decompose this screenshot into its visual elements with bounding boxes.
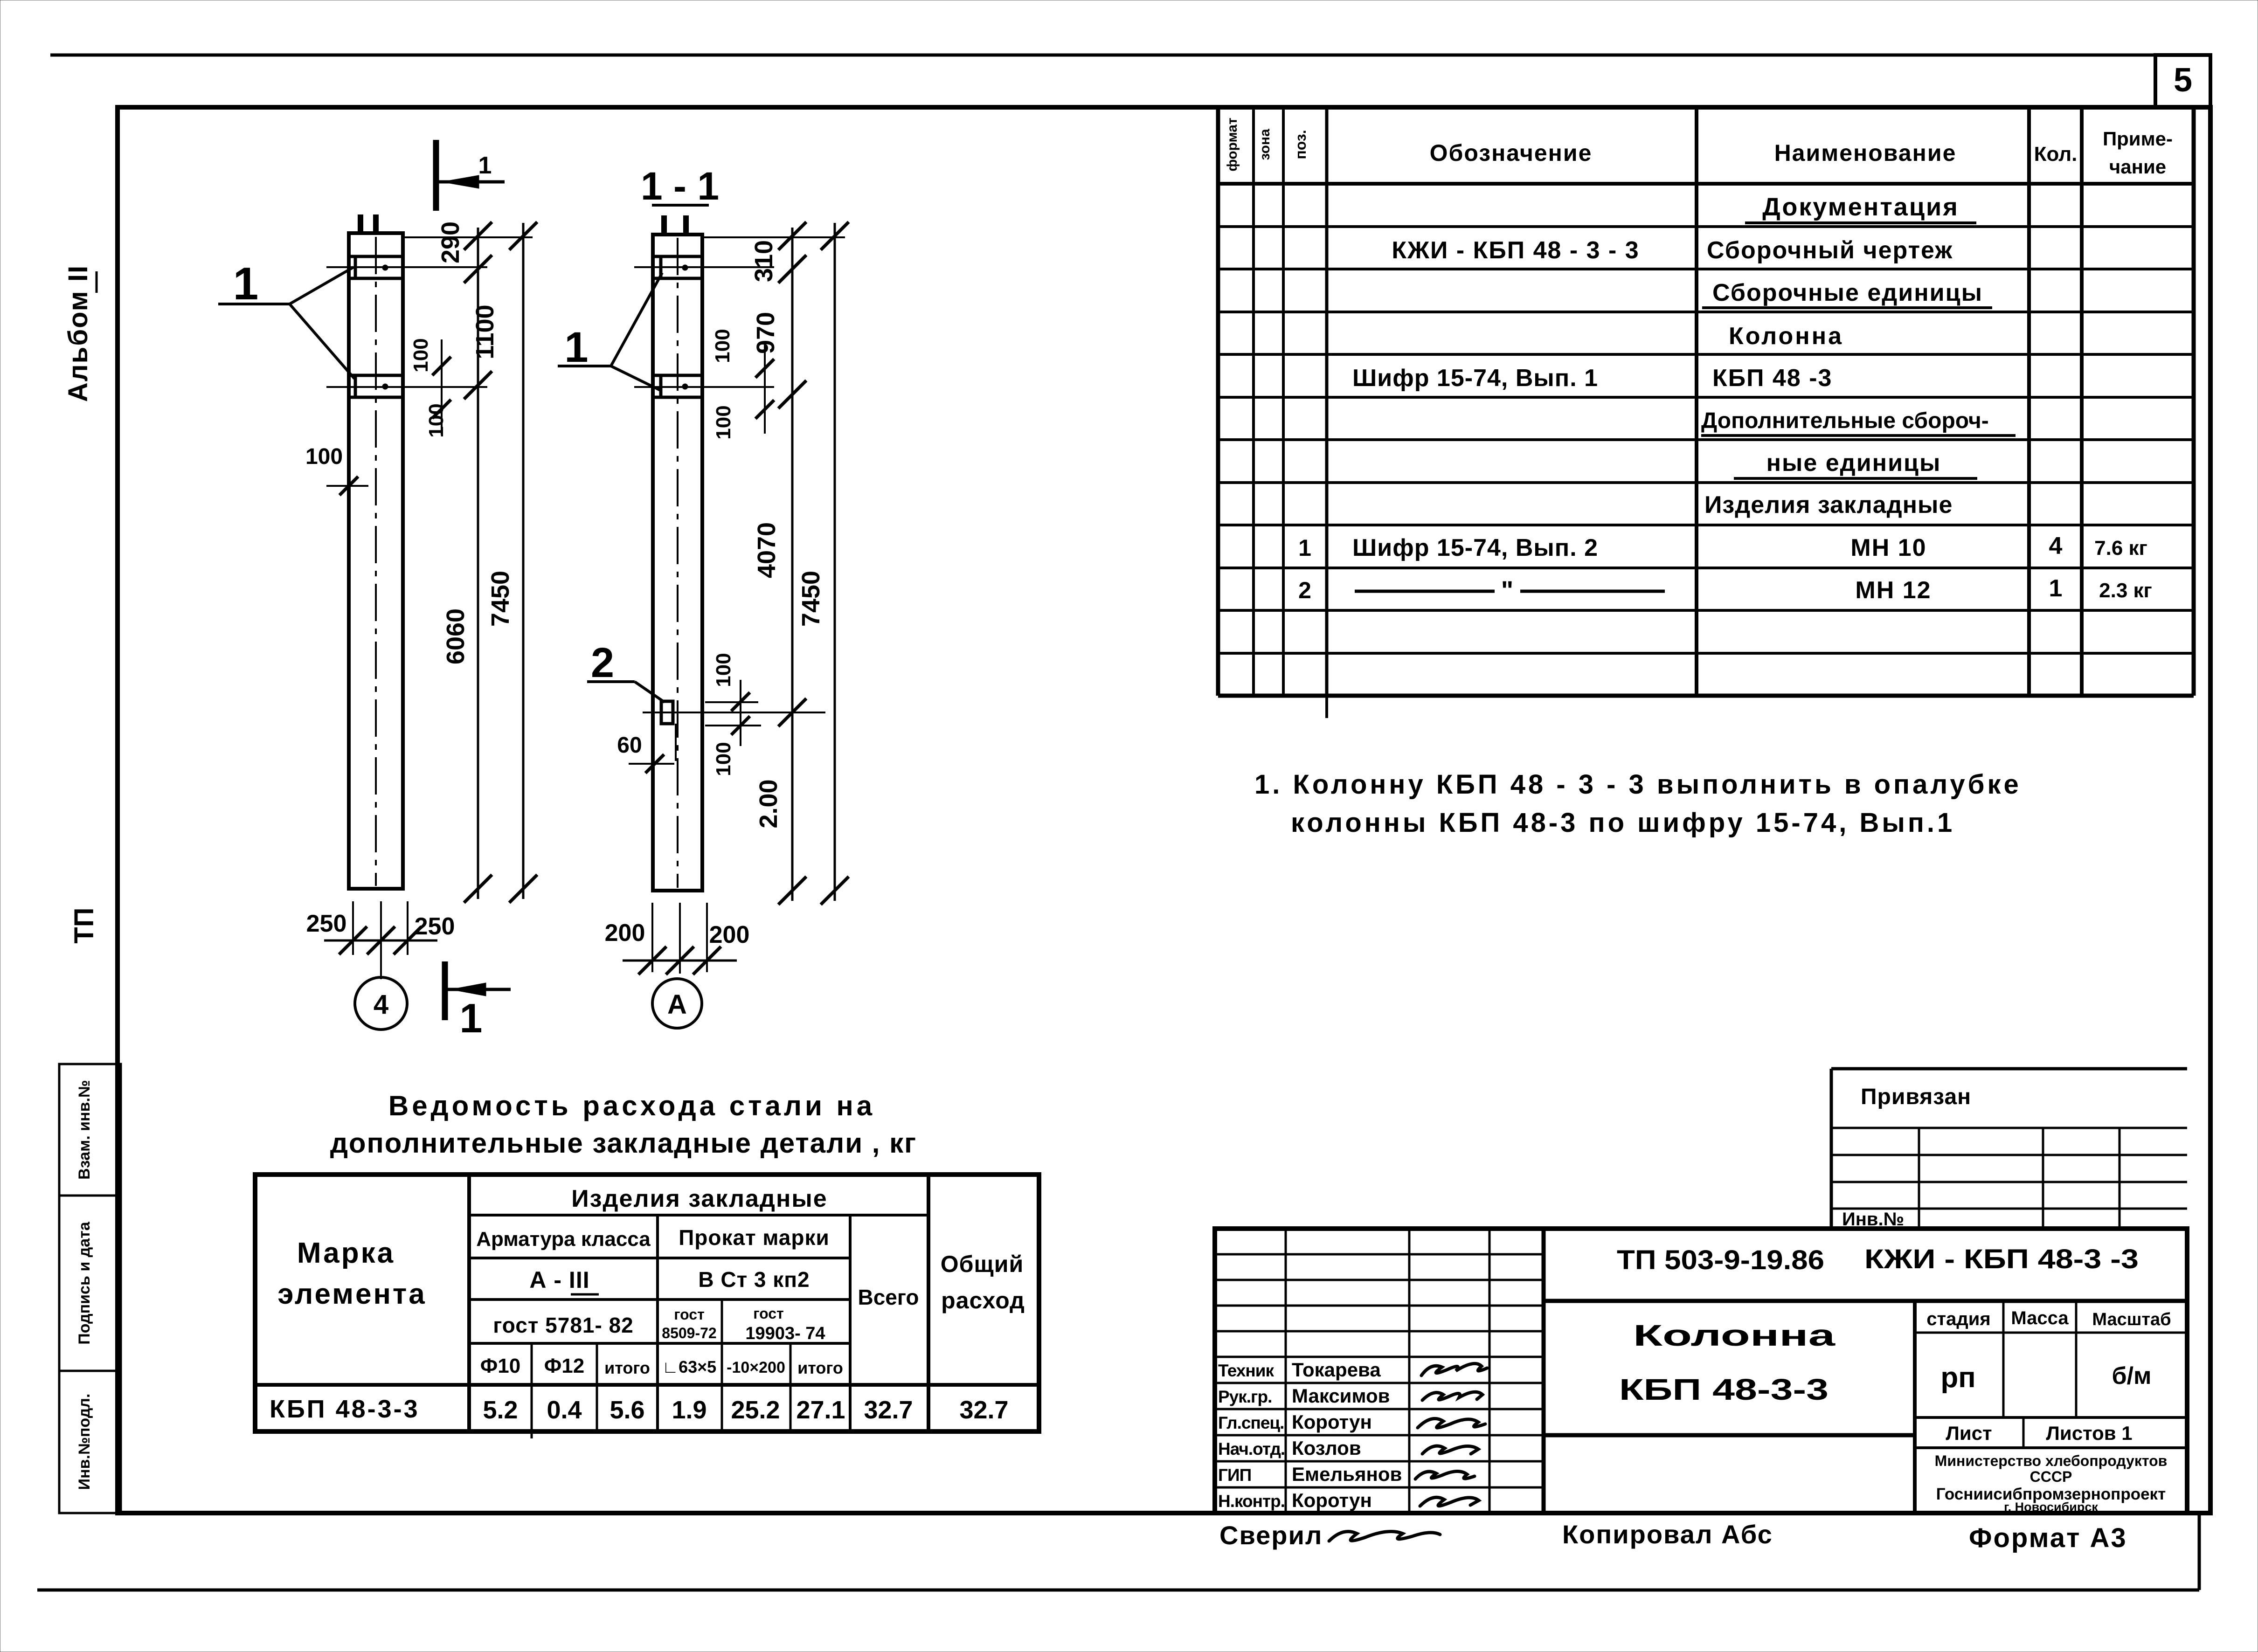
svg-text:Колонна: Колонна <box>1633 1319 1835 1352</box>
svg-text:дополнительные закладные де: дополнительные закладные детали , кг <box>330 1127 917 1159</box>
signatures (cursive squiggles) <box>1421 1363 1487 1376</box>
svg-text:8509-72: 8509-72 <box>662 1325 716 1341</box>
svg-text:100: 100 <box>712 653 735 687</box>
svg-text:Прокат марки: Прокат марки <box>679 1225 830 1250</box>
svg-text:1. Колонну КБП 48 - 3 - 3: 1. Колонну КБП 48 - 3 - 3 выполнить в оп… <box>1254 769 2022 800</box>
section mark top (1) <box>433 140 439 211</box>
svg-text:1: 1 <box>233 258 259 309</box>
dim line 290/1100/6060 <box>477 228 479 899</box>
svg-text:В Ст 3 кп2: В Ст 3 кп2 <box>698 1267 810 1292</box>
top rule <box>50 54 2155 57</box>
svg-text:расход: расход <box>941 1287 1025 1313</box>
svg-text:100: 100 <box>425 403 448 437</box>
svg-text:КЖИ - КБП 48 - 3 - 3: КЖИ - КБП 48 - 3 - 3 <box>1392 237 1639 264</box>
svg-text:гост: гост <box>674 1306 705 1323</box>
svg-text:7450: 7450 <box>486 571 514 627</box>
svg-text:г. Новосибирск: г. Новосибирск <box>2004 1500 2098 1514</box>
svg-text:Сборочные единицы: Сборочные единицы <box>1712 279 1983 306</box>
embedded plate 2 <box>653 374 702 377</box>
svg-text:СССР: СССР <box>2030 1468 2072 1485</box>
svg-text:КБП 48-3-3: КБП 48-3-3 <box>1619 1373 1829 1406</box>
embedded plate 1 <box>653 255 702 258</box>
svg-text:Колонна: Колонна <box>1729 323 1843 350</box>
svg-text:32.7: 32.7 <box>959 1396 1008 1424</box>
specification table <box>1216 107 1220 696</box>
column elevation mark 4: outline <box>349 233 403 889</box>
svg-text:стадия: стадия <box>1926 1309 1990 1329</box>
svg-text:100: 100 <box>712 405 735 439</box>
svg-text:Дополнительные сбороч-: Дополнительные сбороч- <box>1701 408 1989 433</box>
svg-text:КБП 48-3-3: КБП 48-3-3 <box>270 1395 420 1423</box>
svg-text:Приме-: Приме- <box>2103 128 2173 150</box>
svg-text:200: 200 <box>709 921 750 948</box>
svg-text:формат: формат <box>1225 118 1240 171</box>
svg-text:Взам. инв.№: Взам. инв.№ <box>76 1080 93 1180</box>
svg-text:200: 200 <box>605 919 645 947</box>
section mark bottom (1) <box>442 961 448 1020</box>
svg-text:Изделия закладные: Изделия закладные <box>1704 491 1953 518</box>
svg-text:колонны КБП 48-3 по ши: колонны КБП 48-3 по шифру 15-74, Вып.1 <box>1291 808 1955 838</box>
bottom dims 250/250 <box>352 901 354 955</box>
svg-text:Формат А3: Формат А3 <box>1969 1523 2127 1553</box>
svg-text:Сверил: Сверил <box>1219 1521 1323 1550</box>
svg-text:32.7: 32.7 <box>864 1396 913 1424</box>
bottom dims 200/200 <box>651 903 653 972</box>
svg-text:Наименование: Наименование <box>1774 140 1957 166</box>
svg-text:5.2: 5.2 <box>483 1396 518 1424</box>
svg-text:100: 100 <box>305 444 343 469</box>
svg-text:Масса: Масса <box>2011 1308 2069 1328</box>
mark circle 4 <box>355 977 407 1030</box>
svg-text:итого: итого <box>604 1358 650 1377</box>
lifting loops <box>661 215 667 235</box>
mark circle A <box>652 979 702 1028</box>
lifting loops <box>358 214 363 233</box>
svg-text:Арматура класса: Арматура класса <box>476 1228 651 1251</box>
svg-text:б/м: б/м <box>2112 1362 2151 1389</box>
svg-text:Максимов: Максимов <box>1292 1385 1390 1407</box>
dim line 7450 <box>834 223 836 901</box>
svg-text:27.1: 27.1 <box>796 1396 845 1424</box>
column section A: outline <box>653 235 702 891</box>
svg-text:5.6: 5.6 <box>610 1396 644 1424</box>
centerline <box>677 238 679 888</box>
svg-text:Листов 1: Листов 1 <box>2046 1422 2132 1444</box>
svg-text:гост: гост <box>753 1305 784 1322</box>
svg-text:Масштаб: Масштаб <box>2092 1310 2171 1329</box>
svg-text:гост 5781- 82: гост 5781- 82 <box>493 1313 634 1337</box>
svg-text:0.4: 0.4 <box>547 1396 582 1424</box>
svg-text:Шифр 15-74, Вып. 2: Шифр 15-74, Вып. 2 <box>1352 534 1598 561</box>
sheet number box 5 <box>2155 55 2210 107</box>
svg-text:25.2: 25.2 <box>731 1396 780 1424</box>
svg-text:Документация: Документация <box>1762 193 1959 221</box>
svg-text:Нач.отд.: Нач.отд. <box>1218 1439 1285 1458</box>
svg-text:Марка: Марка <box>297 1237 395 1269</box>
svg-text:Кол.: Кол. <box>2034 143 2078 166</box>
extension lines <box>634 266 774 268</box>
title block signature grid <box>1285 1229 1287 1513</box>
svg-text:МН 12: МН 12 <box>1855 577 1931 604</box>
margin stamp box Inv N podl <box>59 1371 121 1513</box>
svg-text:310: 310 <box>750 240 778 282</box>
svg-text:7450: 7450 <box>797 571 825 627</box>
svg-text:-10×200: -10×200 <box>727 1359 785 1376</box>
svg-text:60: 60 <box>617 733 642 758</box>
centerline <box>375 237 377 886</box>
margin stamp box Vzam inv N <box>59 1064 121 1196</box>
svg-text:Ф10: Ф10 <box>480 1355 521 1377</box>
svg-text:100: 100 <box>409 338 432 372</box>
title block right grid <box>1913 1301 1917 1513</box>
svg-text:Емельянов: Емельянов <box>1292 1463 1402 1485</box>
svg-text:100: 100 <box>712 742 735 776</box>
svg-text:Техник: Техник <box>1218 1361 1274 1380</box>
svg-text:Копировал Абс: Копировал Абс <box>1562 1520 1773 1549</box>
svg-text:7.6 кг: 7.6 кг <box>2094 537 2147 560</box>
svg-text:∟63×5: ∟63×5 <box>662 1357 716 1376</box>
svg-text:ные единицы: ные единицы <box>1766 449 1941 477</box>
svg-text:Всего: Всего <box>858 1285 919 1309</box>
svg-text:250: 250 <box>415 913 455 940</box>
dim 100/100 upper cluster <box>764 341 766 434</box>
svg-text:4: 4 <box>374 989 388 1020</box>
svg-text:МН 10: МН 10 <box>1850 534 1926 561</box>
svg-text:1: 1 <box>478 152 492 179</box>
svg-text:А - III: А - III <box>529 1267 589 1293</box>
svg-text:290: 290 <box>436 221 464 263</box>
svg-text:Козлов: Козлов <box>1292 1437 1361 1459</box>
svg-text:1 - 1: 1 - 1 <box>641 164 719 208</box>
svg-text:зона: зона <box>1257 129 1273 160</box>
svg-text:100: 100 <box>711 329 734 363</box>
svg-text:А: А <box>667 989 687 1020</box>
svg-text:19903- 74: 19903- 74 <box>745 1324 825 1343</box>
svg-text:4070: 4070 <box>753 522 781 578</box>
svg-text:ГИП: ГИП <box>1218 1465 1251 1485</box>
svg-text:2: 2 <box>591 640 614 686</box>
svg-text:Обозначение: Обозначение <box>1430 140 1593 166</box>
svg-text:Гл.спец.: Гл.спец. <box>1218 1413 1284 1432</box>
svg-text:Ведомость расхода стали н: Ведомость расхода стали на <box>388 1090 875 1121</box>
margin stamp box Podpis i data <box>59 1196 121 1371</box>
svg-text:5: 5 <box>2174 62 2192 99</box>
svg-text:4: 4 <box>2049 532 2063 560</box>
svg-text:Коротун: Коротун <box>1292 1489 1372 1511</box>
svg-text:Шифр 15-74, Вып. 1: Шифр 15-74, Вып. 1 <box>1352 365 1598 392</box>
bottom long rule <box>37 1589 2199 1592</box>
dim line 310/970/4070/2.00 <box>791 228 794 901</box>
svg-text:Изделия закладные: Изделия закладные <box>571 1185 827 1212</box>
svg-text:1: 1 <box>564 324 588 371</box>
dim 100/100 near plate 2 <box>441 339 443 435</box>
svg-text:Альбом II: Альбом II <box>63 265 93 402</box>
svg-text:Лист: Лист <box>1946 1422 1992 1444</box>
svg-text:Привязан: Привязан <box>1861 1085 1971 1109</box>
extension lines plate centers <box>326 266 487 268</box>
title block outline <box>1215 1229 2187 1513</box>
svg-text:чание: чание <box>2109 156 2166 178</box>
svg-text:ТП 503-9-19.86: ТП 503-9-19.86 <box>1617 1245 1824 1275</box>
svg-text:2: 2 <box>1298 577 1311 603</box>
embedded plate 1 (MN) <box>349 255 403 258</box>
svg-text:1.9: 1.9 <box>672 1396 706 1424</box>
svg-text:итого: итого <box>797 1358 843 1377</box>
svg-text:Токарева: Токарева <box>1292 1359 1381 1381</box>
svg-text:1100: 1100 <box>471 304 499 359</box>
privyazan table <box>1831 1067 2187 1071</box>
vedomost table grid <box>255 1175 1039 1431</box>
svg-text:Министерство хлебопродуктов: Министерство хлебопродуктов <box>1935 1452 2168 1469</box>
svg-text:6060: 6060 <box>442 608 470 664</box>
svg-text:элемента: элемента <box>277 1278 427 1310</box>
svg-text:2.00: 2.00 <box>755 779 783 828</box>
svg-text:1: 1 <box>460 995 483 1041</box>
drawing frame <box>118 107 2210 1513</box>
svg-text:КБП 48 -3: КБП 48 -3 <box>1712 365 1832 392</box>
svg-text:1: 1 <box>1298 535 1311 561</box>
svg-text:1: 1 <box>2049 575 2063 602</box>
svg-text:250: 250 <box>306 910 347 937</box>
svg-text:": " <box>1501 575 1514 605</box>
svg-text:Н.контр.: Н.контр. <box>1218 1492 1285 1511</box>
dim 100/100 at plate 3 <box>740 680 741 746</box>
dim line 7450 <box>522 223 525 899</box>
svg-text:2.3 кг: 2.3 кг <box>2099 579 2152 602</box>
svg-text:Рук.гр.: Рук.гр. <box>1218 1387 1272 1406</box>
svg-text:КЖИ - КБП 48-3 -3: КЖИ - КБП 48-3 -3 <box>1864 1244 2139 1274</box>
embedded plate 2 (MN) <box>349 374 403 377</box>
svg-text:Сборочный чертеж: Сборочный чертеж <box>1707 237 1953 264</box>
svg-text:Коротун: Коротун <box>1292 1411 1372 1433</box>
svg-text:рп: рп <box>1940 1362 1975 1394</box>
svg-text:ТП: ТП <box>69 907 99 943</box>
svg-text:Подпись и дата: Подпись и дата <box>76 1221 93 1345</box>
svg-text:Ф12: Ф12 <box>544 1355 585 1377</box>
embedded plate 3 (item 2) <box>661 701 673 724</box>
svg-text:Общий: Общий <box>941 1251 1024 1277</box>
svg-text:поз.: поз. <box>1292 130 1309 159</box>
svg-text:Инв.№подл.: Инв.№подл. <box>76 1394 93 1490</box>
